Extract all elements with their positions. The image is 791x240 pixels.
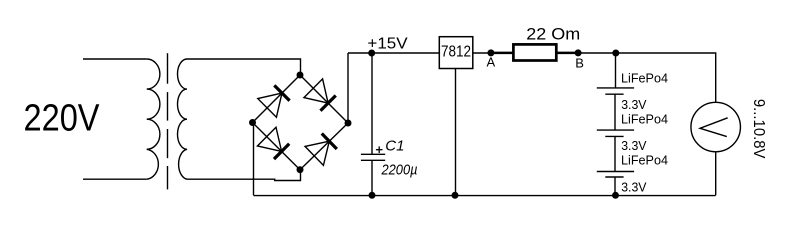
wire capacitor branch top [371, 53, 373, 154]
junction top of C1 [368, 50, 375, 57]
svg-text:B: B [575, 55, 584, 70]
junction bridge right node [345, 120, 352, 127]
svg-text:LiFePo4: LiFePo4 [621, 153, 668, 167]
wire battery branch segment 1 [615, 53, 617, 88]
junction node B [575, 49, 582, 56]
transformer T1 secondary winding [178, 59, 188, 179]
svg-text:LiFePo4: LiFePo4 [621, 112, 668, 126]
svg-text:LiFePo4: LiFePo4 [621, 71, 668, 85]
wire bridge edge left-bottom [253, 123, 301, 170]
transformer T1 primary winding [147, 59, 160, 179]
wire voltmeter bottom lead [715, 152, 717, 196]
wire battery branch segment 4 [614, 177, 616, 195]
diode D4 lower-right [305, 133, 337, 165]
junction 7812 ground [452, 192, 459, 199]
svg-text:3.3V: 3.3V [621, 138, 647, 153]
wire 7812 output to node A [473, 52, 491, 54]
wire resistor to node B (thick lead) [556, 52, 578, 55]
wire secondary top to bridge [187, 59, 301, 75]
svg-text:3.3V: 3.3V [621, 179, 647, 194]
voltmeter PV1 V mark [700, 118, 728, 137]
battery BT1 cell 1 plates [597, 87, 634, 89]
svg-text:2200µ: 2200µ [381, 161, 418, 178]
svg-text:A: A [487, 55, 496, 70]
voltmeter PV1 circle [691, 102, 741, 152]
battery BT1 cell 2 plates [597, 129, 634, 131]
wire node A to resistor (thick lead) [491, 52, 514, 55]
wire primary top lead [83, 58, 147, 60]
wire primary bottom lead [83, 178, 147, 180]
junction bridge bottom node [297, 166, 304, 173]
wire +15V rail [348, 52, 439, 54]
wire 7812 ground pin [455, 69, 457, 196]
svg-text:7812: 7812 [441, 44, 471, 61]
wire secondary bottom to bridge [187, 170, 301, 181]
svg-text:C1: C1 [385, 137, 404, 154]
wire negative rail [254, 195, 716, 197]
transformer T1 core (dashed) [167, 53, 169, 83]
wire capacitor branch bottom [371, 160, 373, 195]
junction bridge left node [249, 119, 256, 126]
junction node A [487, 49, 494, 56]
capacitor C1 polarity plus [376, 146, 383, 153]
wire battery top to voltmeter [616, 53, 716, 102]
diode D2 upper-right [304, 79, 336, 111]
diode D3 lower-left [257, 127, 289, 159]
wire battery branch segment 3 [614, 136, 616, 171]
resistor R1 22 Om body [513, 44, 556, 60]
diode D1 upper-left [258, 85, 290, 117]
junction battery bottom [612, 192, 619, 199]
wire battery branch segment 2 [614, 94, 616, 130]
svg-text:3.3V: 3.3V [621, 97, 647, 112]
svg-text:22 Om: 22 Om [526, 24, 580, 43]
wire bridge minus drop [253, 123, 255, 196]
svg-text:220V: 220V [24, 98, 101, 140]
wire bridge edge bottom-right [300, 123, 348, 170]
regulator U1 7812 box [439, 37, 473, 69]
wire bridge edge top-right [300, 75, 348, 123]
svg-text:+15V: +15V [367, 35, 408, 52]
svg-text:9...10.8V: 9...10.8V [750, 99, 767, 159]
junction C1 bottom [369, 192, 376, 199]
wire node B to battery top [578, 52, 615, 54]
wire bridge edge left-top [253, 75, 301, 123]
junction bridge top node [297, 72, 304, 79]
junction battery top [612, 50, 619, 57]
battery BT1 cell 3 plates [597, 171, 634, 173]
capacitor C1 plates [361, 153, 385, 155]
wire bridge plus riser [347, 53, 349, 123]
